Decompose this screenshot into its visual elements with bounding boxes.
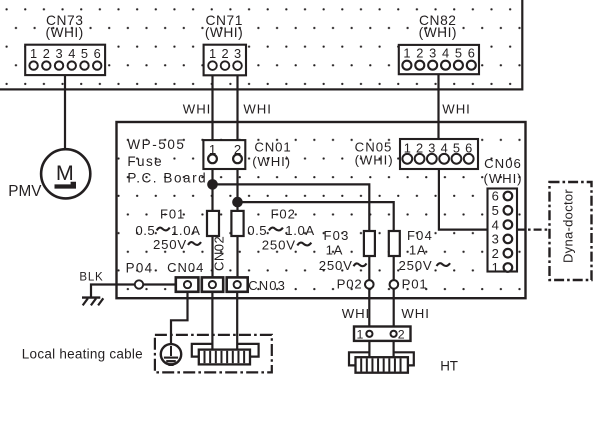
svg-text:P01: P01: [402, 276, 428, 291]
svg-text:F02: F02: [271, 207, 296, 222]
svg-text:2: 2: [398, 328, 405, 342]
svg-text:CN03: CN03: [248, 278, 286, 293]
svg-text:WHI: WHI: [401, 306, 430, 321]
svg-text:WHI: WHI: [342, 306, 371, 321]
svg-text:1.0A: 1.0A: [171, 223, 201, 238]
svg-text:P.C. Board: P.C. Board: [127, 171, 207, 186]
svg-text:6: 6: [94, 46, 101, 61]
svg-text:Local heating cable: Local heating cable: [22, 347, 143, 362]
svg-text:6: 6: [468, 46, 475, 61]
svg-text:(WHI): (WHI): [484, 171, 523, 186]
svg-text:1A: 1A: [409, 242, 427, 257]
svg-text:1: 1: [492, 260, 499, 275]
svg-text:PMV: PMV: [8, 183, 42, 200]
svg-text:250V: 250V: [399, 258, 433, 273]
svg-text:M: M: [56, 161, 74, 185]
svg-text:5: 5: [492, 203, 499, 218]
svg-text:CN06: CN06: [484, 156, 522, 171]
svg-text:3: 3: [429, 46, 436, 61]
svg-text:P02: P02: [337, 277, 363, 292]
svg-text:1: 1: [403, 46, 410, 61]
svg-text:2: 2: [221, 46, 228, 61]
svg-text:2: 2: [492, 246, 499, 261]
svg-text:250V: 250V: [262, 237, 296, 252]
svg-text:HT: HT: [440, 359, 457, 374]
svg-text:(WHI): (WHI): [205, 25, 243, 40]
svg-text:2: 2: [43, 46, 50, 61]
svg-text:Fuse: Fuse: [127, 154, 163, 169]
svg-text:1A: 1A: [326, 243, 344, 258]
svg-text:(WHI): (WHI): [419, 25, 457, 40]
svg-text:5: 5: [455, 46, 462, 61]
svg-text:5: 5: [81, 46, 88, 61]
svg-text:3: 3: [492, 232, 499, 247]
svg-text:BLK: BLK: [79, 272, 103, 284]
svg-text:CN02: CN02: [212, 236, 227, 271]
svg-text:1.0A: 1.0A: [285, 223, 315, 238]
svg-text:6: 6: [492, 189, 499, 204]
svg-text:(WHI): (WHI): [252, 154, 291, 169]
svg-text:CN04: CN04: [167, 260, 204, 275]
svg-text:4: 4: [68, 46, 75, 61]
svg-text:3: 3: [55, 46, 62, 61]
svg-text:1: 1: [357, 328, 364, 342]
svg-text:1: 1: [209, 46, 216, 61]
svg-text:0.5: 0.5: [247, 223, 267, 238]
svg-text:F01: F01: [160, 207, 185, 222]
svg-text:P04: P04: [126, 261, 154, 276]
svg-text:(WHI): (WHI): [355, 153, 394, 168]
svg-text:F04: F04: [407, 228, 433, 243]
svg-text:2: 2: [416, 46, 423, 61]
svg-text:(WHI): (WHI): [45, 25, 83, 40]
svg-text:0.5: 0.5: [135, 223, 155, 238]
svg-text:250V: 250V: [319, 258, 353, 273]
svg-text:250V: 250V: [153, 237, 187, 252]
svg-text:Dyna-doctor: Dyna-doctor: [561, 189, 576, 263]
svg-text:4: 4: [492, 217, 499, 232]
svg-text:4: 4: [442, 46, 449, 61]
svg-text:3: 3: [234, 46, 241, 61]
svg-text:WP-505: WP-505: [127, 137, 185, 152]
svg-text:F03: F03: [324, 228, 350, 243]
svg-text:1: 1: [30, 46, 37, 61]
svg-text:WHI: WHI: [183, 101, 212, 116]
svg-text:CN01: CN01: [254, 140, 291, 155]
svg-text:WHI: WHI: [442, 101, 471, 116]
svg-text:WHI: WHI: [243, 101, 272, 116]
